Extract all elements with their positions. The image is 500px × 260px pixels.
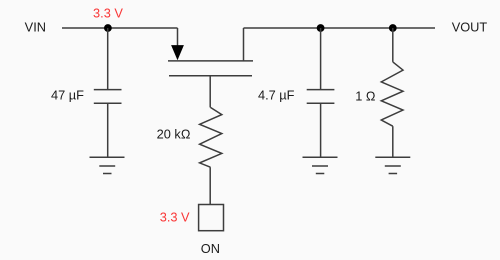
wire C2 to ground xyxy=(320,103,322,157)
wire node to capacitor C2 xyxy=(320,28,322,90)
wire R2 to ground xyxy=(392,126,394,157)
junction dot input node xyxy=(104,24,112,32)
wire gate to resistor R1 xyxy=(209,76,211,108)
ground (right) xyxy=(375,157,410,173)
wire R1 to ON box xyxy=(209,167,211,204)
wire node to resistor R2 xyxy=(392,28,394,62)
capacitor C2 4.7uF xyxy=(307,90,335,104)
wire node to capacitor C1 xyxy=(107,28,109,90)
junction dot R2 node xyxy=(389,24,397,32)
svg-text:VIN: VIN xyxy=(25,20,46,35)
terminal box ON xyxy=(199,205,224,231)
svg-text:3.3 V: 3.3 V xyxy=(160,209,190,224)
svg-text:47 µF: 47 µF xyxy=(51,88,84,103)
ground (middle) xyxy=(303,157,338,173)
svg-text:VOUT: VOUT xyxy=(452,20,488,35)
svg-text:20 kΩ: 20 kΩ xyxy=(157,127,191,142)
resistor R1 20k xyxy=(200,107,222,167)
wire transistor to VOUT xyxy=(244,27,436,29)
ground (left) xyxy=(90,157,125,173)
svg-text:4.7 µF: 4.7 µF xyxy=(258,88,295,103)
wire VIN to transistor xyxy=(62,27,178,29)
capacitor C1 47uF xyxy=(94,90,122,104)
svg-text:3.3 V: 3.3 V xyxy=(93,5,123,20)
resistor R2 1 Ohm xyxy=(381,62,403,126)
junction dot C2 node xyxy=(317,24,325,32)
wire C1 to ground xyxy=(107,103,109,157)
transistor Q1 (PMOS pass switch) xyxy=(168,28,253,76)
svg-text:1 Ω: 1 Ω xyxy=(355,89,376,104)
svg-text:ON: ON xyxy=(201,241,220,256)
